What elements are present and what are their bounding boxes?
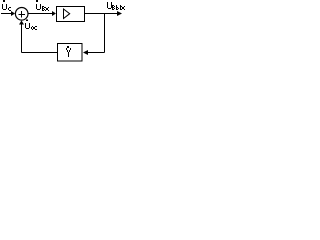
label Uvyx subscript x (121, 6, 125, 10)
label Uc dot (3, 0, 5, 2)
arrowhead into summing node from below (19, 21, 24, 25)
label Uoc subscript c (34, 26, 37, 30)
plus sign vertical (21, 11, 23, 18)
label Uoc dot (26, 20, 28, 22)
arrowhead into feedback block (83, 50, 88, 55)
label Uvx subscript x (45, 7, 49, 11)
node feedback tap (104, 14, 106, 53)
label Uc letter U (2, 4, 7, 10)
wire input Uc (1, 13, 12, 15)
label Uvx dot (36, 0, 38, 2)
label Uoc letter U (25, 23, 30, 29)
label Uoc subscript o (31, 26, 34, 30)
wire feedback up segment (21, 24, 23, 53)
arrowhead output (117, 11, 122, 16)
label Uvx subscript v (42, 6, 45, 11)
feedback block gamma (58, 44, 83, 62)
label Uvyx letter U (107, 2, 112, 9)
label Uc subscript c (8, 7, 11, 11)
label Uvx letter U (36, 4, 41, 10)
amplifier triangle symbol (64, 9, 70, 19)
gamma dot (67, 46, 69, 48)
wire output (84, 13, 119, 15)
label Uvyx subscript y (116, 5, 121, 10)
plus sign horizontal (19, 14, 26, 16)
wire summing node to amplifier (28, 13, 53, 15)
summing node (comparator) (15, 8, 28, 21)
arrowhead into amplifier (52, 11, 56, 16)
arrowhead into summing node (11, 11, 15, 16)
amplifier block (57, 7, 85, 22)
wire feedback left segment (22, 52, 58, 54)
wire feedback right segment (87, 52, 105, 54)
gamma symbol (66, 48, 71, 57)
label Uvyx subscript v (112, 5, 115, 10)
